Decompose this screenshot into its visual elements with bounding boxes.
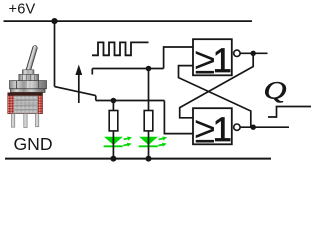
svg-text:≥1: ≥1: [195, 108, 232, 150]
junction: D1 to GND: [110, 156, 116, 162]
LED D2 light arrows: [158, 137, 167, 147]
U1b output bubble: [234, 124, 240, 130]
pulse waveform icon (contact bounce): [92, 42, 149, 55]
toggle switch photo: [8, 45, 47, 128]
switch photo: washer: [11, 89, 46, 93]
switch throw contact S (upper): [91, 69, 93, 75]
svg-text:≥1: ≥1: [195, 39, 232, 81]
LED D2: [139, 137, 158, 147]
wire: node S horizontal: [92, 68, 163, 70]
junction: Qbar node: [251, 51, 256, 56]
wire: cross-couple Q to upper gate input 2: [179, 66, 251, 128]
junction: node R / R1 branch: [111, 98, 117, 104]
Q step waveform icon: [268, 107, 311, 118]
svg-text:Q: Q: [264, 76, 287, 104]
switch photo: hex nut: [10, 81, 47, 89]
resistor R1: [109, 111, 118, 131]
+6V rail: [4, 20, 253, 22]
junction: D2 to GND: [146, 156, 152, 162]
LED D1 light arrows: [123, 137, 132, 147]
switch photo: body: [8, 93, 43, 114]
NOR gate U1a (upper): [193, 39, 232, 81]
wire: U1b output Q: [240, 126, 289, 128]
wire: R2/D2 vertical: [148, 69, 150, 159]
junction: Q node: [251, 125, 256, 130]
switch photo: collar: [22, 70, 34, 75]
wire: R1/D1 vertical: [112, 101, 114, 159]
switch S1 lever: [55, 87, 96, 96]
svg-text:+6V: +6V: [9, 1, 36, 17]
switch photo: lever: [25, 45, 38, 74]
U1a output bubble: [234, 50, 240, 56]
wire: node S up to gate input 1: [164, 47, 193, 69]
switch photo: pins: [12, 114, 39, 128]
switch photo: threaded bushing: [19, 74, 39, 81]
svg-text:GND: GND: [14, 134, 53, 154]
wire: U1a output: [240, 52, 267, 54]
resistor R2: [144, 111, 153, 131]
switch actuation arrow: [75, 65, 82, 104]
wire: node R to gate input 2 of lower gate: [164, 101, 193, 134]
junction: node S / R2 branch: [146, 66, 152, 72]
wire: switch pole from +6V: [54, 21, 56, 87]
wire: node R horizontal: [96, 100, 165, 102]
junction: +6V to switch pole: [51, 18, 57, 24]
switch throw contact R (lower): [95, 96, 97, 101]
GND rail: [5, 158, 271, 160]
NOR gate U1b (lower): [193, 108, 232, 150]
wire: cross-couple Qbar to lower gate input 1: [180, 53, 254, 118]
LED D1: [104, 137, 123, 147]
